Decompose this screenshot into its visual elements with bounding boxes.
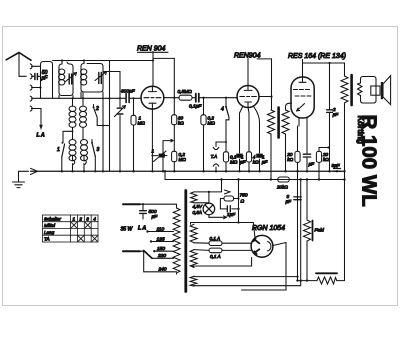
wire pentode top row	[303, 63, 345, 76]
coil L1b	[72, 98, 74, 106]
resistor cathode	[246, 152, 251, 162]
jack contact c4	[30, 96, 32, 101]
svg-text:0,1 A: 0,1 A	[210, 254, 221, 259]
coil L3	[69, 140, 76, 161]
wire secondary top to pentode grid	[286, 103, 292, 110]
resistor 20k right B	[319, 148, 329, 180]
bus 2 feed	[164, 171, 166, 179]
interstage transformer primary	[268, 110, 275, 135]
anode column x174	[173, 58, 175, 171]
bottom bus nodes	[296, 279, 308, 281]
capacitor 2uF	[329, 63, 331, 171]
svg-text:R 100 WL: R 100 WL	[358, 115, 381, 207]
svg-text:3: 3	[86, 216, 89, 221]
svg-text:1: 1	[152, 149, 155, 154]
wire antenna down	[19, 53, 26, 76]
bus 2 rail	[165, 179, 345, 181]
wire gang column x109.5	[109, 61, 111, 172]
svg-text:750: 750	[240, 193, 248, 199]
wire primary bottom to bus2	[270, 135, 272, 180]
wire c1 to box	[32, 65, 41, 67]
wire w2 top anode row	[191, 223, 256, 238]
switch S4	[225, 98, 227, 107]
output transformer core	[350, 75, 353, 105]
svg-text:RGN 1054: RGN 1054	[252, 225, 285, 232]
node c3 on box	[39, 86, 41, 88]
trimmer arrow	[115, 106, 126, 117]
mains plug top	[123, 203, 140, 205]
coil L4	[81, 140, 88, 161]
node switch4 drop	[225, 97, 227, 99]
svg-text:REN904: REN904	[234, 53, 261, 60]
rectifier output wire	[242, 243, 287, 291]
transformer primary winding	[173, 208, 180, 274]
wire top W1	[53, 60, 154, 62]
svg-text:Ω: Ω	[241, 199, 245, 205]
capacitor screen 1uF	[306, 127, 308, 171]
svg-text:0,1µF: 0,1µF	[189, 104, 202, 110]
capacitor block A	[236, 154, 243, 158]
winding w3 output to rectifier	[193, 258, 252, 268]
svg-text:Schalter: Schalter	[44, 216, 61, 221]
mains plug bottom	[123, 250, 140, 252]
capacitor 4uF electrolytic	[294, 197, 301, 200]
svg-text:3: 3	[97, 147, 100, 153]
switch S1 link	[63, 131, 73, 142]
tap 150	[154, 250, 173, 252]
svg-text:1: 1	[73, 216, 76, 221]
wire mains top	[140, 204, 177, 208]
wire c2 cap stubs	[32, 75, 41, 77]
svg-text:150: 150	[157, 246, 165, 252]
svg-text:20kΩ: 20kΩ	[276, 185, 288, 190]
svg-text:MΩ: MΩ	[230, 160, 238, 165]
plate row resistor 0.5M	[164, 97, 179, 99]
svg-text:220: 220	[157, 253, 166, 259]
wire 240 tap feed	[144, 251, 177, 272]
winding w4 outputs	[193, 275, 298, 277]
trimmer column x120	[119, 98, 121, 171]
resistor 0.2M	[172, 151, 177, 161]
speaker cone	[381, 82, 383, 99]
svg-text:L A: L A	[138, 226, 146, 232]
chassis plug arrow on bus	[19, 168, 38, 174]
bleeder resistor bottom	[298, 280, 318, 282]
capacitor 500pF mains	[142, 203, 144, 205]
node loop2 top	[83, 59, 85, 61]
dial lamp	[203, 203, 215, 215]
wire plate feed down	[271, 59, 273, 110]
bus nodes	[61, 170, 346, 172]
svg-text:110: 110	[157, 226, 165, 232]
resistor R 1MOhm grid leak	[133, 98, 135, 171]
svg-text:MΩ: MΩ	[179, 157, 187, 162]
svg-text:125: 125	[157, 236, 165, 242]
svg-text:2: 2	[95, 106, 99, 112]
svg-text:240: 240	[158, 266, 167, 272]
node L2b top	[82, 97, 84, 99]
wire c5 to LA	[32, 109, 42, 128]
pentode pins	[299, 118, 307, 127]
svg-text:TA: TA	[44, 237, 50, 242]
svg-text:2: 2	[78, 216, 82, 221]
winding w3	[190, 250, 197, 268]
tap 125	[151, 241, 174, 243]
switch S1	[62, 142, 64, 144]
svg-text:9µF: 9µF	[332, 163, 341, 168]
coil L1	[59, 69, 65, 85]
svg-text:RES 164 (RE 134): RES 164 (RE 134)	[288, 53, 346, 60]
tap 110	[148, 231, 174, 233]
capacitor 0.1uF coupling	[196, 94, 199, 102]
main HT rail right	[344, 104, 346, 281]
speaker driver	[371, 86, 380, 95]
wire w1 top to lamp row	[194, 180, 222, 192]
interstage secondary	[282, 110, 289, 135]
node L1b top	[71, 97, 73, 99]
coil L2	[81, 69, 87, 85]
svg-text:35 W: 35 W	[121, 227, 134, 233]
table X marks	[71, 222, 97, 241]
svg-text:Lang: Lang	[44, 230, 55, 235]
svg-text:1: 1	[57, 147, 60, 153]
wire loop2 right down	[102, 98, 104, 171]
TA jacks	[216, 141, 226, 143]
svg-text:pF: pF	[41, 75, 49, 81]
interstage core	[277, 108, 280, 138]
wire L3 bottom curl	[73, 155, 75, 171]
wire label row stub	[153, 57, 174, 59]
resistor 20k right A	[297, 126, 299, 276]
svg-text:kΩ: kΩ	[253, 160, 259, 165]
svg-text:0,5MΩ: 0,5MΩ	[178, 89, 193, 95]
svg-text:Mittel: Mittel	[44, 223, 56, 228]
switch S2	[93, 105, 95, 108]
trimmer cathode cluster	[152, 139, 173, 171]
svg-text:T.A: T.A	[211, 154, 217, 159]
wire c3	[32, 88, 41, 99]
tap 220	[152, 257, 174, 259]
node W1 to label	[152, 59, 154, 61]
resistor 20k horizontal on bus2	[278, 177, 290, 182]
svg-text:1µF: 1µF	[227, 212, 236, 217]
lamp bottom tap	[209, 215, 227, 219]
capacitor 50pF	[35, 74, 38, 80]
transformer core	[184, 191, 187, 292]
capacitor 9uF on bus	[334, 169, 341, 172]
variable capacitor C2	[99, 73, 102, 84]
winding w4	[190, 276, 197, 286]
bottom bus segment	[297, 277, 299, 281]
svg-text:0,1 A: 0,1 A	[210, 236, 221, 241]
resistor 30k	[172, 115, 177, 125]
LA arrow	[39, 125, 43, 130]
bus ground rail	[31, 170, 345, 172]
anode feed rail	[238, 180, 240, 223]
fuse 0.1A lower	[194, 249, 252, 252]
tube V1 cathode down	[151, 109, 153, 171]
wire grid rail y98	[32, 97, 126, 99]
output transformer primary	[341, 76, 348, 104]
switch table	[43, 215, 99, 242]
wire L4 bottom curl	[84, 155, 86, 171]
wire V2 plate to primary	[259, 96, 272, 98]
resistor 750 Ohm	[220, 199, 238, 209]
wire grid cap column	[240, 107, 243, 171]
jack contact c5	[30, 106, 32, 111]
svg-text:Feld: Feld	[315, 228, 325, 234]
svg-text:4: 4	[93, 216, 96, 221]
svg-text:MΩ: MΩ	[208, 121, 216, 126]
tube V2 cathode column	[248, 108, 249, 172]
svg-text:0,5A: 0,5A	[193, 210, 202, 215]
node 0.2M drop	[202, 97, 204, 99]
voltage selector arm	[144, 251, 152, 259]
jack contact c1	[30, 64, 32, 69]
wire secondary bottom to bus	[285, 135, 287, 171]
svg-text:REN 904: REN 904	[137, 46, 166, 53]
wire w1 bottom to lamp	[194, 202, 209, 205]
jack contact c3	[30, 85, 32, 90]
variable capacitor C1	[69, 74, 72, 84]
wire label2 row	[257, 58, 272, 60]
node loop1 top	[61, 59, 63, 61]
resistor 0.2M screen	[203, 98, 205, 172]
tuned loop 1	[59, 61, 73, 96]
coil L2b	[82, 92, 84, 106]
svg-text:4,5V: 4,5V	[193, 204, 203, 209]
antenna	[6, 53, 31, 61]
ground symbol	[13, 171, 25, 187]
heater winding w1	[191, 192, 197, 203]
svg-text:kΩ: kΩ	[178, 121, 184, 126]
field coil Feld	[306, 180, 308, 221]
svg-text:4: 4	[221, 107, 224, 113]
node x109.5	[108, 97, 110, 99]
capacitor block B	[256, 154, 263, 158]
speaker voice coil loop	[358, 83, 363, 96]
switch S3	[91, 140, 93, 143]
fuse 0.1A upper	[194, 242, 251, 244]
winding w2	[190, 224, 197, 243]
wire loop bottoms to grid rail	[59, 92, 103, 98]
svg-text:kΩ: kΩ	[287, 157, 293, 162]
svg-text:L A: L A	[37, 133, 45, 139]
svg-text:MΩ: MΩ	[138, 121, 146, 126]
wire right pin column	[254, 107, 260, 171]
wire box loop	[41, 62, 53, 99]
svg-text:kΩ: kΩ	[323, 157, 329, 162]
bus2 nodes	[220, 178, 345, 180]
jack contact c2	[30, 74, 32, 79]
resistor 0.1M	[225, 142, 227, 171]
wire varcap2 top to trimmer column	[104, 72, 120, 99]
tuned loop 2	[81, 61, 103, 92]
capacitor lamp	[220, 208, 238, 210]
